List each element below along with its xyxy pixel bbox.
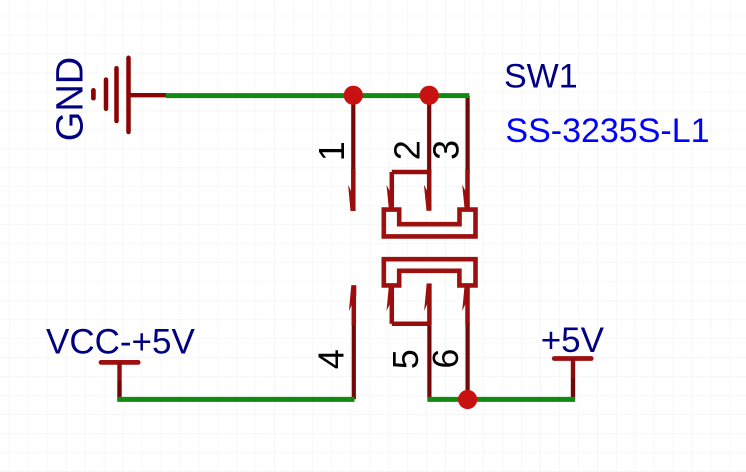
svg-text:2: 2: [387, 140, 428, 160]
svg-text:+5V: +5V: [541, 321, 605, 360]
svg-text:GND: GND: [50, 57, 92, 141]
svg-text:SS-3235S-L1: SS-3235S-L1: [505, 112, 709, 150]
svg-text:6: 6: [425, 349, 466, 369]
svg-text:4: 4: [310, 349, 351, 369]
svg-text:3: 3: [426, 140, 467, 160]
svg-text:VCC-+5V: VCC-+5V: [46, 323, 195, 362]
svg-text:1: 1: [311, 141, 352, 161]
svg-text:5: 5: [385, 349, 426, 369]
svg-text:SW1: SW1: [504, 58, 578, 96]
